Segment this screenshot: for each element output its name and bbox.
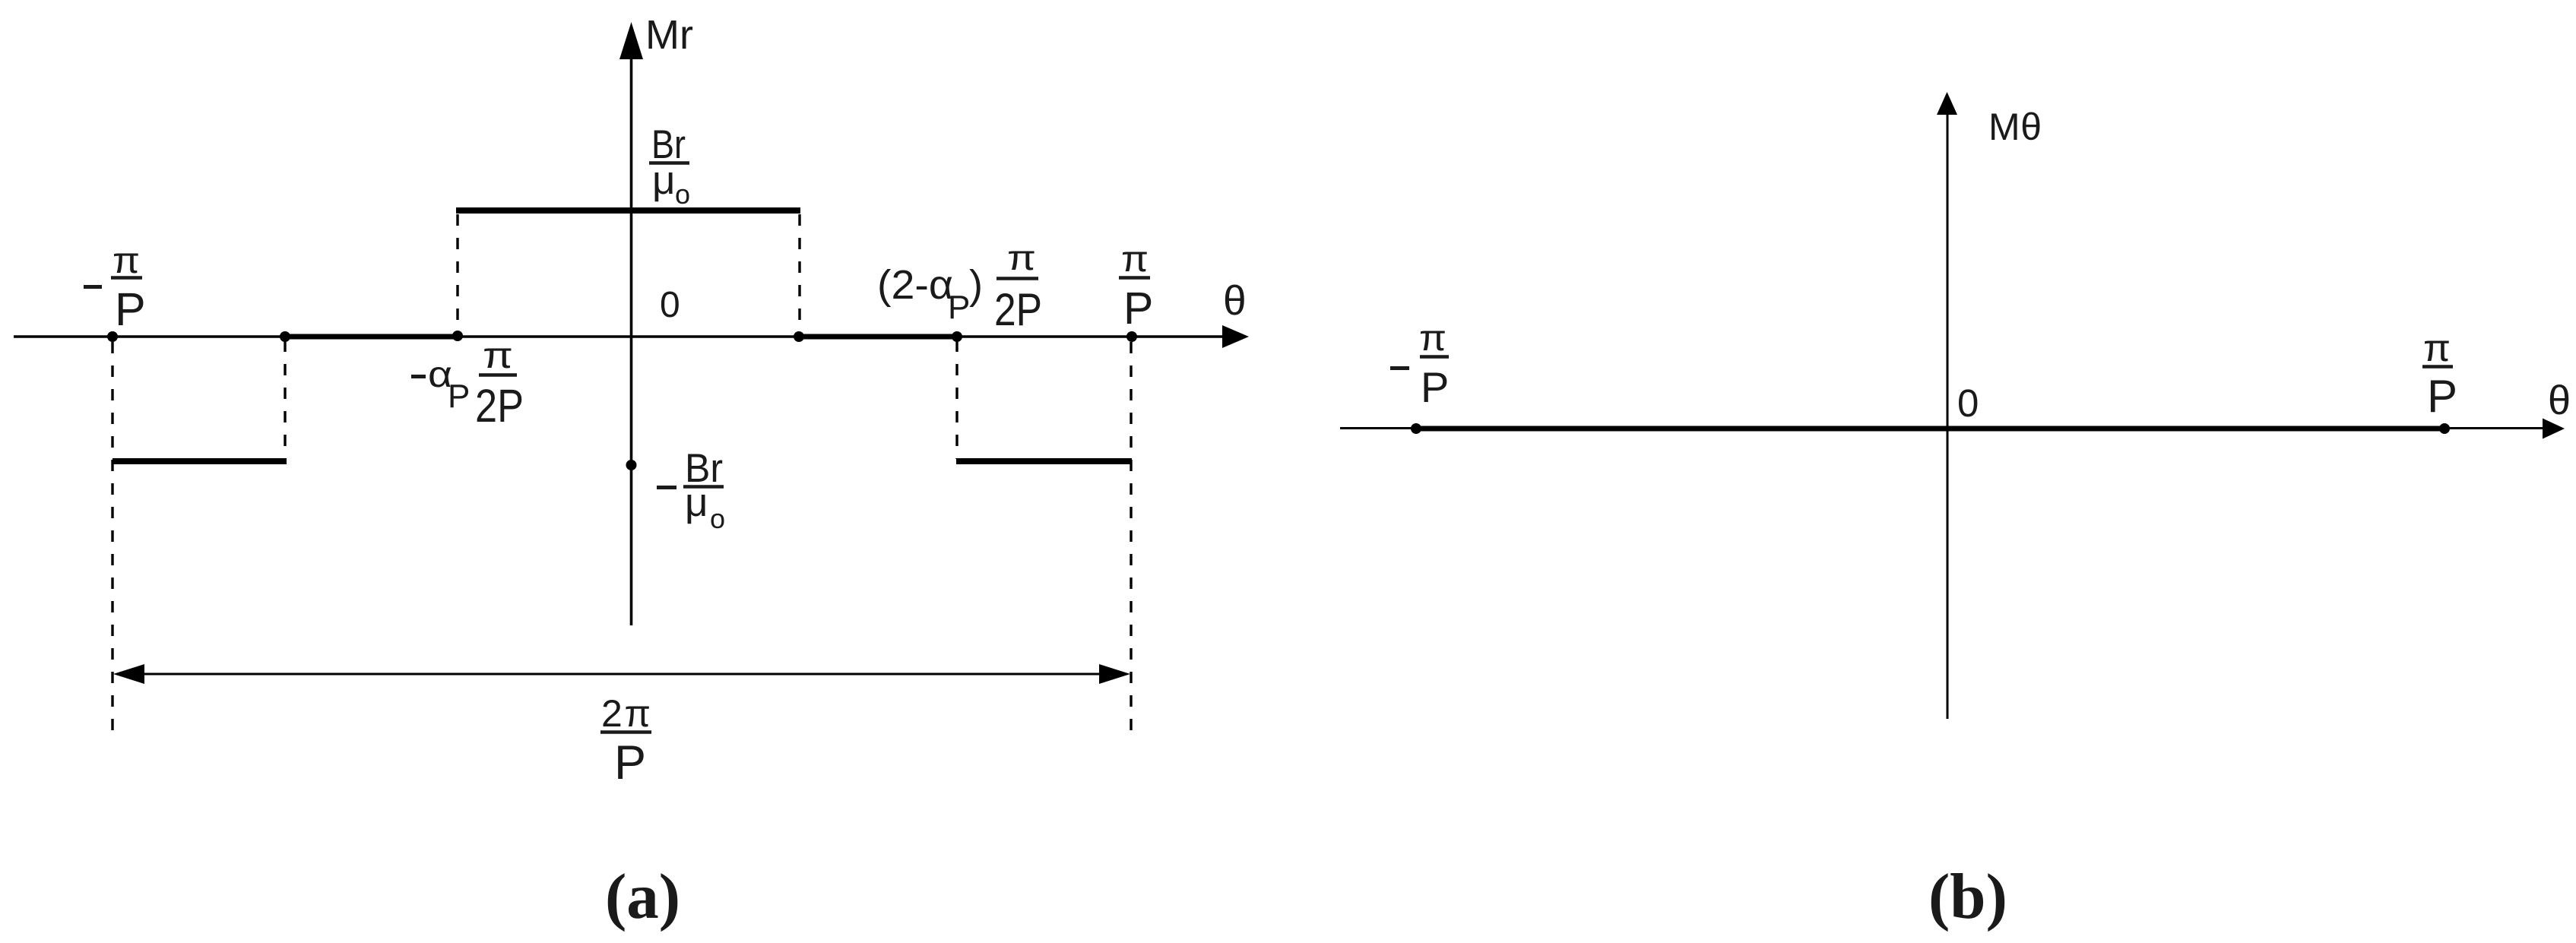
- svg-text:π: π: [2423, 327, 2451, 369]
- svg-text:μ: μ: [685, 480, 708, 525]
- negative step right -Br/mu0: [956, 458, 1132, 464]
- node dot -Br/mu0 on y-axis: [626, 460, 637, 470]
- fraction bar -Br/mu0: [683, 485, 724, 489]
- fraction bar pi/P (b): [2422, 365, 2453, 369]
- dashed line at -ap*pi/2P: [456, 214, 458, 334]
- svg-text:(b): (b): [1928, 861, 2007, 932]
- label -Br/mu0 : minus: [657, 486, 676, 489]
- svg-text:θ: θ: [2548, 378, 2571, 423]
- x-axis arrowhead (a): [1222, 325, 1249, 348]
- svg-text:Mθ: Mθ: [1988, 106, 2042, 148]
- svg-text:θ: θ: [1223, 277, 1247, 324]
- svg-text:π: π: [1419, 318, 1446, 359]
- fraction bar -ap*pi/2P: [479, 373, 517, 377]
- svg-text:π: π: [1121, 239, 1149, 280]
- dashed line at -(2-ap)pi/2P: [284, 340, 286, 459]
- x-axis theta (b): [1340, 427, 2545, 429]
- node dot -pi/P: [107, 331, 118, 342]
- svg-text:π: π: [483, 336, 513, 376]
- svg-text:0: 0: [660, 285, 680, 325]
- svg-text:2π: 2π: [601, 692, 651, 735]
- y-axis Mtheta (b): [1947, 112, 1949, 719]
- y-axis arrowhead (b): [1937, 92, 1957, 115]
- svg-text:Mr: Mr: [645, 12, 693, 58]
- fraction bar (2-ap)pi/2P: [996, 277, 1038, 280]
- dashed line at +ap*pi/2P: [798, 214, 800, 334]
- dashed line at pi/P: [1130, 342, 1132, 739]
- label -pi/P (b) : minus: [1390, 366, 1409, 370]
- fraction bar Br/mu0 top: [649, 161, 689, 165]
- x-axis arrowhead (b): [2543, 419, 2565, 439]
- svg-text:P: P: [1421, 363, 1449, 411]
- y-axis Mr (a): [630, 56, 633, 625]
- zero segment right on axis: [797, 334, 958, 340]
- node dot pi/P: [1126, 331, 1137, 342]
- svg-text:P: P: [948, 289, 970, 326]
- dimension arrowhead right: [1099, 664, 1130, 684]
- svg-text:): ): [969, 262, 983, 308]
- zero segment left on axis: [284, 334, 460, 340]
- label -pi/P left : minus: [84, 285, 102, 289]
- svg-text:0: 0: [1957, 381, 1979, 425]
- svg-text:2P: 2P: [994, 284, 1042, 335]
- svg-text:o: o: [675, 179, 690, 210]
- node dot -pi/P (b): [1411, 423, 1421, 434]
- y-axis arrowhead (a): [619, 22, 643, 59]
- zero line thick (b): [1416, 426, 2445, 432]
- node dot +ap*pi/2P: [794, 331, 804, 342]
- svg-text:μ: μ: [652, 158, 676, 203]
- fraction bar -pi/P left: [111, 276, 142, 280]
- node dot -ap*pi/2P: [452, 331, 463, 341]
- dimension arrowhead left: [113, 664, 144, 684]
- dashed line at (2-ap)pi/2P: [955, 340, 958, 459]
- node dot pi/P (b): [2439, 423, 2450, 434]
- x-axis theta (a): [14, 335, 1225, 338]
- svg-text:P: P: [448, 378, 470, 415]
- svg-text:(a): (a): [605, 861, 680, 932]
- svg-text:π: π: [1007, 238, 1036, 277]
- negative step left -Br/mu0: [112, 458, 287, 464]
- fraction bar -pi/P (b): [1420, 355, 1449, 359]
- dashed line at -pi/P: [111, 342, 113, 739]
- svg-text:P: P: [614, 736, 646, 790]
- fraction bar pi/P right (a): [1119, 276, 1150, 280]
- top step +Br/mu0 from -ap*pi/2P to +ap*pi/2P: [456, 207, 800, 214]
- dimension line 2pi/P: [129, 673, 1114, 676]
- fraction bar 2pi/P: [600, 730, 651, 734]
- node dot -(2-ap)pi/2P: [280, 331, 290, 342]
- svg-text:o: o: [710, 503, 725, 534]
- svg-text:P: P: [1123, 283, 1153, 334]
- label -ap*pi/2P : minus: [411, 375, 426, 378]
- node dot (2-ap)pi/2P: [952, 331, 962, 342]
- svg-text:π: π: [112, 241, 140, 281]
- svg-text:P: P: [2427, 371, 2457, 422]
- svg-text:2P: 2P: [475, 380, 524, 432]
- svg-text:(2-α: (2-α: [877, 262, 953, 308]
- svg-text:P: P: [115, 283, 146, 335]
